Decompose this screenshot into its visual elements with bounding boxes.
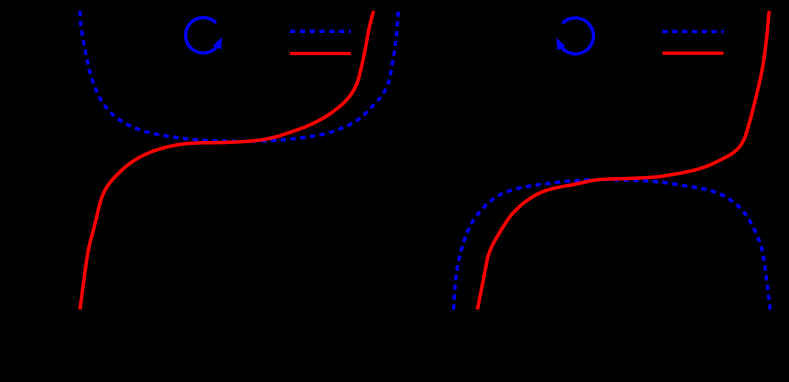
right panel: clockwise rotation arrow icon: [556, 18, 593, 54]
left panel: red solid curve (chemical potential, S-shaped): [80, 11, 374, 310]
left panel legend: red solid line sample: [290, 52, 351, 55]
left panel legend: blue dashed line sample: [290, 30, 351, 33]
right panel: red solid curve (chemical potential, S-shaped): [477, 11, 769, 310]
left panel: counterclockwise rotation arrow icon: [186, 18, 222, 53]
left panel: blue dashed curve (thermodynamic factor, U-shaped): [80, 11, 398, 141]
right panel legend: red solid line sample: [663, 52, 724, 55]
right panel legend: blue dashed line sample: [663, 30, 724, 33]
right panel: blue dashed curve (thermodynamic factor, inverted-U): [454, 180, 771, 310]
